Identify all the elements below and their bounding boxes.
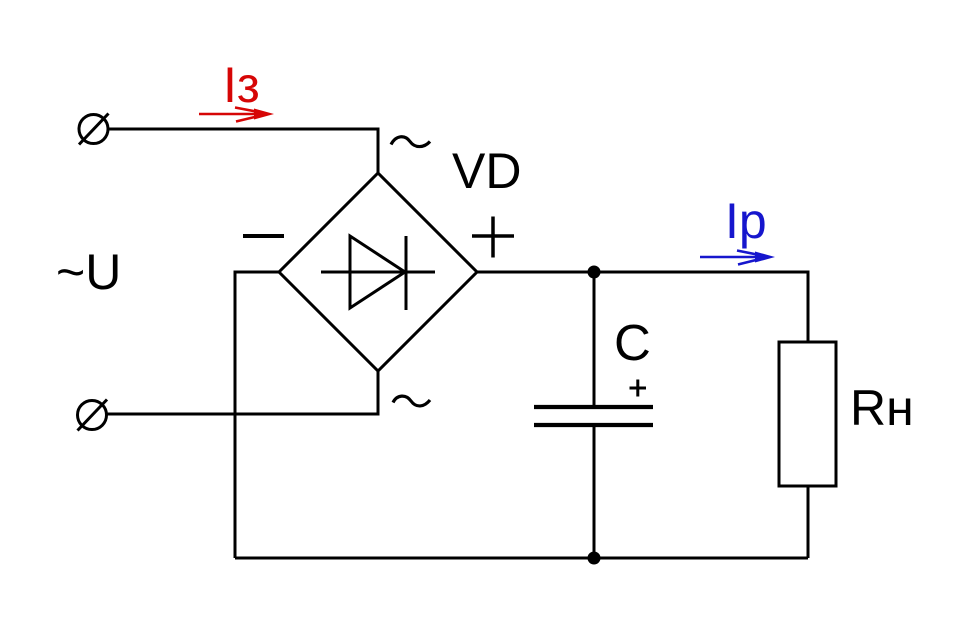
capacitor C plates bbox=[534, 407, 653, 425]
minus polarity mark bbox=[243, 234, 284, 238]
wire resistor bottom lead bbox=[807, 486, 810, 558]
tilde ac mark bottom bbox=[393, 396, 430, 406]
terminal X1 (top input) bbox=[79, 114, 109, 145]
tilde ac mark top bbox=[391, 137, 430, 147]
svg-text:Rн: Rн bbox=[850, 380, 914, 436]
wire bottom input to bridge bbox=[107, 371, 379, 414]
arrow I3 (red) bbox=[199, 108, 274, 122]
terminal X2 (bottom input) bbox=[78, 400, 108, 431]
wire bottom rail bbox=[235, 557, 808, 560]
diode symbol inside bridge bbox=[321, 236, 435, 310]
wire capacitor top lead bbox=[593, 272, 596, 405]
bridge rectifier VD (diamond) bbox=[279, 173, 477, 371]
wire bridge left vertex to bottom rail bbox=[235, 272, 279, 558]
wire top input to bridge bbox=[108, 129, 378, 173]
resistor RH (load) bbox=[779, 342, 836, 486]
plus mark capacitor polarity bbox=[630, 380, 647, 397]
node junction top (capacitor tap) bbox=[588, 266, 601, 279]
svg-text:~U: ~U bbox=[56, 244, 121, 300]
svg-text:VD: VD bbox=[452, 143, 521, 199]
svg-text:C: C bbox=[614, 314, 651, 371]
plus polarity mark bbox=[472, 217, 514, 258]
arrow Ip (blue) bbox=[700, 251, 775, 265]
wire positive rail (bridge right vertex to resistor) bbox=[477, 272, 808, 342]
node junction bottom bbox=[588, 552, 601, 565]
wire capacitor bottom lead bbox=[593, 427, 596, 558]
svg-text:Ip: Ip bbox=[725, 193, 767, 249]
svg-text:Iз: Iз bbox=[223, 57, 260, 113]
